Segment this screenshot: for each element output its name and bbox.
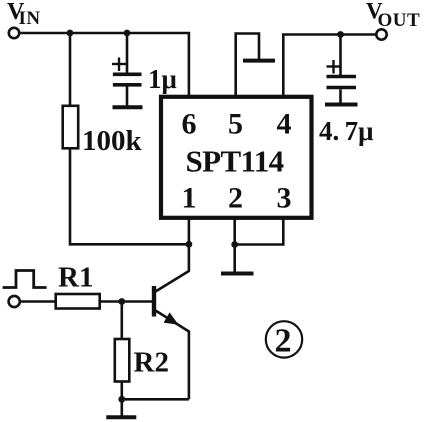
ground (main) <box>106 415 136 419</box>
capacitor C2 4.7u <box>327 35 357 103</box>
svg-text:5: 5 <box>228 108 243 141</box>
label VIN <box>7 0 41 29</box>
node: emitter return junction <box>118 396 125 403</box>
transistor Q1 <box>154 244 189 399</box>
svg-text:4: 4 <box>277 108 292 141</box>
wire: R2 bottom lead <box>121 382 124 400</box>
circled figure number 2 <box>266 321 302 357</box>
svg-text:3: 3 <box>277 182 292 215</box>
svg-text:R2: R2 <box>134 347 169 379</box>
node: junction at 1u branch <box>124 30 131 37</box>
node: junction at 4.7u branch <box>337 31 344 38</box>
label VOUT <box>366 0 420 31</box>
svg-text:6: 6 <box>182 108 197 141</box>
wire: pin2 ground stub <box>233 245 236 272</box>
terminal pulse input <box>9 296 20 307</box>
label 4.7u <box>319 116 373 146</box>
svg-text:R1: R1 <box>58 262 93 294</box>
plus sign of C2 <box>327 65 341 67</box>
ground (C1) <box>113 105 143 109</box>
svg-text:4. 7μ: 4. 7μ <box>319 116 373 146</box>
wire: input to R1 <box>20 300 56 303</box>
wire: pin2-pin3 tie <box>235 218 284 245</box>
wire: R2 top lead <box>121 302 124 340</box>
collector lead <box>156 244 189 291</box>
label 1u <box>148 64 177 94</box>
wire: pin1 to collector node <box>188 218 191 244</box>
svg-text:2: 2 <box>275 323 292 360</box>
wire: 100k bottom lead to collector node <box>70 148 189 244</box>
svg-text:SPT114: SPT114 <box>186 144 284 179</box>
node: collector junction <box>186 241 193 248</box>
emitter arrow <box>164 312 179 324</box>
wire: R1 to base <box>100 300 152 303</box>
svg-text:OUT: OUT <box>378 10 421 31</box>
resistor R1 <box>56 294 100 309</box>
terminal VOUT <box>376 29 386 39</box>
pulse input symbol <box>3 271 47 288</box>
wire: ground stub <box>121 399 124 415</box>
base bar <box>152 286 156 317</box>
resistor 100k <box>63 106 78 149</box>
wire: pin4 to VOUT rail <box>283 35 376 97</box>
ground (pins 2-3) <box>221 272 254 276</box>
svg-text:2: 2 <box>228 182 243 215</box>
terminal VIN <box>9 28 19 38</box>
node: junction at pin2 ground <box>231 241 238 248</box>
resistor R2 <box>115 339 130 382</box>
ground (C2) <box>325 103 358 107</box>
ground (pin5 bypass) <box>243 59 275 63</box>
node: junction at 100k branch <box>67 30 74 37</box>
wire: VIN top rail <box>20 33 189 95</box>
svg-text:IN: IN <box>19 8 41 29</box>
svg-text:100k: 100k <box>82 125 143 157</box>
wire: 100k top lead <box>69 33 72 106</box>
wire: pin5 bypass loop <box>236 34 259 97</box>
op-amp U1 SPT114 box <box>161 97 312 218</box>
svg-text:1: 1 <box>182 182 197 215</box>
svg-text:1μ: 1μ <box>148 64 177 94</box>
wire: emitter return <box>122 398 189 401</box>
capacitor C1 1u <box>112 33 142 106</box>
node: base junction <box>118 298 125 305</box>
plus sign of C1 <box>112 63 126 65</box>
emitter lead <box>156 311 189 400</box>
